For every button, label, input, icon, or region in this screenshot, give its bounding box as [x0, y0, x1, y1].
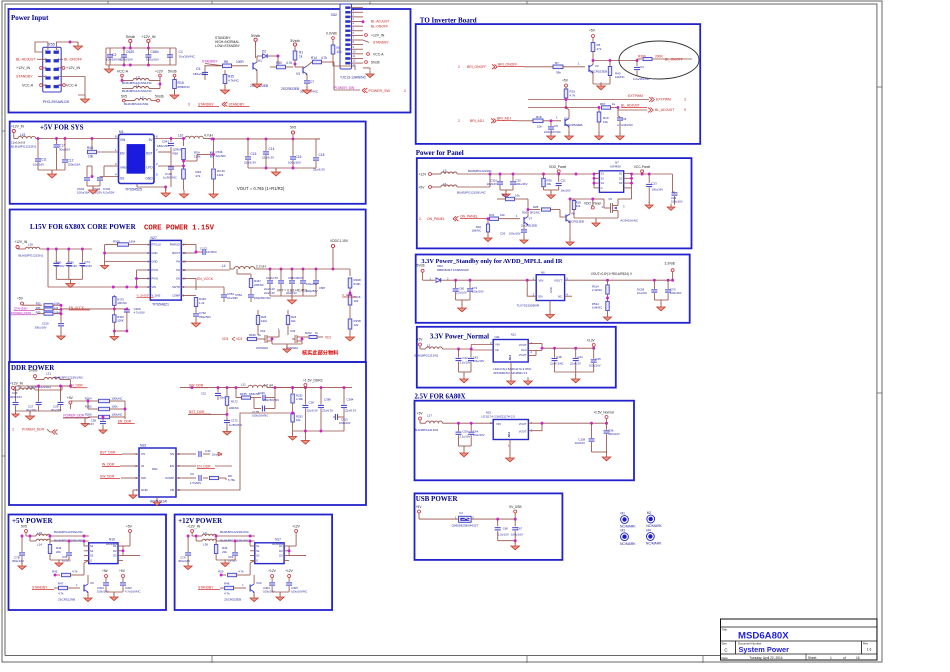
- transistor V10 p12: [224, 581, 262, 602]
- svg-text:R155: R155: [240, 392, 247, 396]
- ground V9 emitter: [84, 592, 92, 602]
- svg-text:2N7002A: 2N7002A: [256, 346, 268, 350]
- svg-text:91k: 91k: [291, 319, 296, 323]
- ground X55 top: [74, 42, 83, 50]
- wire usb bottom: [498, 539, 517, 542]
- svg-text:+12V: +12V: [285, 569, 294, 573]
- capacitor bank core output: [264, 269, 326, 296]
- mounting hole M4: [646, 528, 662, 545]
- svg-text:L5: L5: [443, 169, 447, 173]
- svg-text:AP1084D/NC AZ1084D-3.3: AP1084D/NC AZ1084D-3.3: [493, 371, 527, 375]
- svg-text:VD3: VD3: [222, 337, 228, 341]
- svg-text:10k: 10k: [603, 120, 608, 124]
- svg-text:核实此部分物料: 核实此部分物料: [302, 349, 339, 357]
- svg-text:5Vstb: 5Vstb: [251, 34, 260, 38]
- inductor L5 panel: [432, 169, 531, 175]
- resistor R49: [182, 166, 202, 190]
- svg-text:Date:: Date:: [722, 656, 729, 660]
- wire ddr out rail: [275, 386, 352, 389]
- svg-text:C22: C22: [671, 196, 677, 200]
- ground R49: [180, 190, 219, 198]
- svg-text:VCC-A: VCC-A: [22, 84, 34, 88]
- op-amp U regulator N32 AOZ1021: [133, 444, 182, 504]
- svg-text:100u/16V: 100u/16V: [146, 58, 159, 62]
- net EN_DDR mid: [118, 417, 135, 424]
- resistor R524: [592, 297, 609, 314]
- svg-text:VRT = 0.8(1+R1/R2): VRT = 0.8(1+R1/R2): [277, 289, 307, 293]
- svg-text:G: G: [90, 559, 92, 563]
- svg-text:R14: R14: [311, 56, 317, 60]
- svg-text:BST_DDR: BST_DDR: [100, 451, 116, 455]
- net STANDBY left: [16, 75, 45, 79]
- transistor V2 inverter: [589, 61, 607, 77]
- net V_SNS7: [137, 293, 154, 297]
- section title TO Inverter Board: [420, 17, 477, 25]
- ground core caps: [66, 280, 75, 288]
- ground stby in caps: [456, 300, 470, 312]
- svg-text:8.2v/50V: 8.2v/50V: [103, 191, 114, 195]
- svg-text:Power for Panel: Power for Panel: [416, 149, 464, 157]
- svg-text:BRI_ONOFF: BRI_ONOFF: [467, 65, 486, 69]
- svg-text:C480: C480: [55, 261, 62, 265]
- power +1.5V_DDR3: [303, 378, 323, 386]
- svg-text:R28: R28: [533, 205, 539, 209]
- svg-text:L15: L15: [37, 531, 42, 535]
- capacitor C5: [193, 65, 208, 80]
- svg-text:D2: D2: [279, 549, 283, 553]
- svg-text:SS: SS: [120, 177, 124, 181]
- svg-text:2SCR512EB: 2SCR512EB: [521, 224, 537, 228]
- svg-text:22u/6.3V: 22u/6.3V: [307, 409, 318, 413]
- svg-text:+12V_IN: +12V_IN: [11, 125, 25, 129]
- svg-text:TJC13-13AW/NC: TJC13-13AW/NC: [340, 76, 367, 80]
- capacitor C72: [79, 249, 92, 279]
- inductor L2 normal: [415, 344, 472, 358]
- offpage EXTPWM: [628, 94, 686, 102]
- svg-text:100u/16V/NC: 100u/16V/NC: [544, 130, 561, 134]
- svg-text:EN_DDR: EN_DDR: [197, 465, 211, 469]
- wire extpwm rail2: [528, 98, 649, 101]
- svg-text:GND: GND: [145, 177, 153, 181]
- svg-text:SW_DDR: SW_DDR: [100, 475, 115, 479]
- svg-text:PVIN: PVIN: [152, 277, 158, 281]
- power +12V panel: [419, 172, 432, 176]
- power +12V_IN mid: [141, 35, 155, 48]
- svg-text:TPS54821: TPS54821: [152, 303, 169, 307]
- svg-text:C305: C305: [291, 586, 298, 590]
- capacitor C544: [77, 166, 90, 195]
- power VDDC1.15V: [330, 239, 349, 269]
- section title +12V POWER: [178, 517, 223, 525]
- svg-text:6.8k/NC: 6.8k/NC: [592, 306, 602, 310]
- svg-text:MBR0520LT1/SS8200LW: MBR0520LT1/SS8200LW: [437, 268, 469, 272]
- svg-text:C: C: [724, 648, 727, 653]
- resistor R308: [348, 269, 361, 293]
- svg-text:100u/16A: 100u/16A: [77, 191, 89, 195]
- svg-text:STANDBY: STANDBY: [32, 586, 48, 590]
- ground IC pad: [153, 497, 161, 506]
- net POWER_12V core: [11, 311, 37, 315]
- svg-text:BL-ONOFF: BL-ONOFF: [371, 24, 388, 28]
- svg-text:1.5n/50V: 1.5n/50V: [190, 481, 201, 485]
- svg-text:R40: R40: [87, 146, 93, 150]
- svg-text:V7: V7: [529, 217, 533, 221]
- resistor R5 inverter: [591, 43, 602, 61]
- svg-text:100K: 100K: [117, 319, 124, 323]
- section box USB POWER: [415, 493, 563, 560]
- net EN_DDR to IC: [182, 465, 232, 470]
- svg-text:C7N: C7N: [670, 288, 676, 292]
- svg-text:39k: 39k: [556, 71, 561, 75]
- wire V9 collector: [54, 574, 88, 584]
- svg-text:5V5: 5V5: [121, 94, 127, 98]
- net BL-ONOFF label: [59, 58, 83, 62]
- svg-text:D2: D2: [262, 50, 266, 54]
- svg-text:30u/16V: 30u/16V: [55, 264, 65, 268]
- svg-text:4.7u/16V/NC: 4.7u/16V/NC: [617, 123, 633, 127]
- net IN_DDR to IC: [102, 463, 133, 468]
- wire FB ddr: [182, 412, 294, 490]
- svg-text:100k: 100k: [112, 405, 119, 409]
- resistor R43 inverter: [608, 61, 624, 83]
- svg-text:Q06558258/04632T: Q06558258/04632T: [452, 524, 479, 528]
- svg-text:2.2u/10V: 2.2u/10V: [498, 532, 509, 536]
- capacitor C138 2v5: [575, 423, 595, 452]
- svg-text:C429: C429: [258, 391, 265, 395]
- ground IC N32 pin4: [129, 490, 137, 499]
- capacitor C43 normal: [468, 350, 485, 372]
- wire BOOT pin: [186, 251, 197, 254]
- svg-text:3.3V Power_Normal: 3.3V Power_Normal: [430, 334, 489, 341]
- power +5V inverter upper: [589, 29, 596, 43]
- capacitor C780: [66, 249, 77, 279]
- section title 2.5V: [415, 394, 466, 401]
- svg-text:BL_ADJUST: BL_ADJUST: [655, 108, 674, 112]
- svg-text:LOW=STANDBY: LOW=STANDBY: [215, 44, 241, 48]
- svg-text:BRI_ADJ: BRI_ADJ: [470, 119, 484, 123]
- svg-text:10n/50V: 10n/50V: [206, 250, 217, 254]
- svg-text:2.2u/10V: 2.2u/10V: [460, 435, 471, 439]
- ground sys caps: [48, 170, 57, 178]
- power 5V5 L2: [121, 94, 127, 102]
- resistor R205 ddr: [85, 400, 125, 411]
- power +12V_IN p12: [187, 525, 201, 537]
- wire sys caps bottom: [38, 169, 65, 171]
- resistor R116: [348, 293, 361, 310]
- ground V6 R129 shared: [574, 218, 618, 227]
- svg-text:2.2 uH: 2.2 uH: [256, 265, 266, 269]
- net BST_DDR label: [188, 410, 211, 415]
- ground R302 C369: [110, 333, 119, 341]
- section title DDR POWER: [11, 364, 55, 372]
- wire V8 base: [560, 210, 566, 218]
- svg-text:NC/MARK: NC/MARK: [646, 542, 662, 546]
- resistor R158: [348, 310, 361, 334]
- wire panel D bus: [630, 173, 672, 188]
- svg-text:POWER_DDR: POWER_DDR: [11, 311, 32, 315]
- power 3.3Vstb: [665, 262, 676, 281]
- resistor R8: [205, 60, 248, 68]
- svg-text:BRI_ONOFF: BRI_ONOFF: [498, 63, 517, 67]
- svg-text:+12V_IN: +12V_IN: [10, 382, 24, 386]
- ground IC: [137, 184, 170, 198]
- resistor R447: [237, 269, 264, 292]
- svg-text:VDD_Panel: VDD_Panel: [549, 165, 566, 169]
- svg-text:22R/NC: 22R/NC: [254, 283, 264, 287]
- svg-text:N32: N32: [140, 444, 146, 448]
- capacitor C9 inverter: [544, 119, 561, 134]
- ground C23 panel: [645, 201, 653, 208]
- svg-text:EN_VCCK: EN_VCCK: [197, 277, 214, 281]
- svg-text:V8: V8: [571, 212, 575, 216]
- svg-text:VOUT: VOUT: [554, 279, 562, 283]
- svg-text:5V_USB: 5V_USB: [509, 505, 521, 509]
- power 5Vstb ddr: [29, 369, 38, 380]
- svg-text:D3: D3: [279, 554, 283, 558]
- svg-text:100u/16V: 100u/16V: [589, 364, 601, 368]
- power +12V ferrite: [155, 70, 164, 89]
- svg-text:S3: S3: [601, 181, 605, 185]
- svg-text:47k: 47k: [597, 47, 602, 51]
- ground p5 out caps: [106, 592, 123, 601]
- note VRT formula: [277, 289, 307, 293]
- svg-text:22u/6.3V: 22u/6.3V: [264, 287, 275, 291]
- svg-text:BL-ADJUST: BL-ADJUST: [371, 20, 389, 24]
- section box +5V POWER: [9, 515, 167, 611]
- svg-text:VD3: VD3: [236, 337, 242, 341]
- svg-text:VCC-A: VCC-A: [66, 84, 78, 88]
- svg-text:GND: GND: [152, 260, 158, 264]
- svg-text:C2: C2: [112, 53, 116, 57]
- svg-text:C74: C74: [472, 286, 478, 290]
- svg-text:R58: R58: [173, 152, 179, 156]
- svg-text:STANDBY: STANDBY: [198, 102, 215, 106]
- wire V8 collector: [569, 198, 574, 214]
- resistor R206 ddr: [85, 401, 127, 419]
- svg-text:4: 4: [369, 1, 371, 5]
- capacitor C61 p12: [228, 540, 238, 563]
- svg-text:R30: R30: [276, 61, 282, 65]
- resistor R46 p12: [214, 535, 227, 560]
- svg-text:1u/50V/NC: 1u/50V/NC: [163, 176, 177, 180]
- svg-text:R48: R48: [224, 582, 230, 586]
- title block: [721, 619, 878, 660]
- capacitor C1: [167, 48, 196, 65]
- resistor R155 ddr: [236, 388, 261, 400]
- wire NC pin stby: [565, 295, 572, 297]
- transistor N17 AO4459 p12: [250, 538, 289, 564]
- svg-text:C11: C11: [41, 158, 47, 162]
- svg-text:2.2 uH: 2.2 uH: [264, 384, 274, 388]
- svg-text:GND: GND: [141, 488, 149, 492]
- inductor L27 2v5: [415, 414, 494, 433]
- wire p12 ic input: [249, 535, 255, 546]
- svg-text:+12V_IN: +12V_IN: [14, 240, 28, 244]
- section box +12V POWER: [175, 515, 333, 611]
- section title Power Input: [11, 14, 49, 22]
- power 5Vstb mid: [126, 35, 135, 48]
- wire core input rail: [40, 248, 151, 289]
- svg-text:+12V: +12V: [292, 525, 301, 529]
- svg-text:R172: R172: [231, 399, 238, 403]
- resistor R646: [246, 333, 262, 341]
- svg-text:BLM18PG121SN1: BLM18PG121SN1: [415, 354, 439, 358]
- svg-text:N11: N11: [495, 335, 500, 339]
- net POWER_SW label: [334, 86, 355, 90]
- capacitor C96 stby: [665, 280, 682, 300]
- svg-text:M3: M3: [621, 529, 626, 533]
- svg-text:F2: F2: [459, 511, 463, 515]
- svg-text:C43: C43: [473, 356, 479, 360]
- wire core caps bottom: [56, 279, 82, 281]
- junction mid rails: [123, 47, 150, 67]
- svg-text:4.7k/NC: 4.7k/NC: [228, 79, 240, 83]
- svg-text:100u/16V: 100u/16V: [509, 232, 521, 236]
- svg-text:C684: C684: [151, 50, 159, 54]
- junction V1 R30: [277, 55, 297, 66]
- svg-text:5.76k: 5.76k: [228, 478, 235, 482]
- wire usb caps: [496, 518, 516, 527]
- capacitor C44 normal: [570, 348, 583, 372]
- svg-text:22u/6.3V: 22u/6.3V: [264, 291, 275, 295]
- svg-text:2: 2: [419, 217, 421, 221]
- svg-text:2SCR523EB: 2SCR523EB: [566, 123, 582, 127]
- svg-text:BLM18PG121SN1: BLM18PG121SN1: [415, 428, 439, 432]
- resistor R36 panel: [542, 174, 552, 190]
- svg-text:POWER_DDR: POWER_DDR: [22, 428, 45, 432]
- wire p5 out caps rail: [123, 555, 140, 557]
- svg-text:AO4409: AO4409: [106, 542, 117, 546]
- capacitor C40 ddr: [182, 449, 223, 457]
- net STANDBY p5: [32, 586, 58, 591]
- capacitor C541: [157, 137, 184, 155]
- ground mosfets: [283, 345, 291, 352]
- svg-text:+12V_IN: +12V_IN: [141, 35, 155, 39]
- svg-text:180u/25V: 180u/25V: [157, 144, 169, 148]
- svg-text:C15: C15: [251, 152, 257, 156]
- svg-text:VOUT: VOUT: [519, 343, 527, 347]
- ground C172 ddr: [223, 428, 231, 435]
- svg-text:V9: V9: [90, 581, 94, 585]
- power 5V_USB: [509, 505, 521, 519]
- resistor R129 panel: [572, 198, 594, 218]
- svg-text:10k: 10k: [576, 204, 581, 208]
- svg-text:EN: EN: [170, 464, 174, 468]
- svg-text:1u/50V: 1u/50V: [228, 559, 237, 563]
- ground C544 C542: [87, 186, 100, 194]
- svg-text:VDDC1.15V: VDDC1.15V: [330, 239, 349, 243]
- wire ddr left rail: [16, 385, 72, 390]
- resistor R19 inverter: [597, 106, 609, 134]
- svg-text:R206: R206: [85, 413, 92, 417]
- ground X52: [363, 68, 374, 78]
- svg-text:C620: C620: [126, 50, 134, 54]
- svg-text:C96: C96: [608, 429, 614, 433]
- capacitor C570 stby: [637, 280, 657, 300]
- svg-text:C23: C23: [652, 182, 658, 186]
- capacitor C66 usb: [495, 527, 509, 541]
- power +2.5V_Normal: [593, 411, 614, 424]
- svg-text:C6: C6: [190, 472, 194, 476]
- wire ddr caps bottom: [16, 411, 61, 414]
- svg-text:2: 2: [458, 119, 460, 123]
- svg-text:POWER_DDR: POWER_DDR: [63, 413, 84, 417]
- ground ddr caps: [12, 411, 35, 420]
- capacitor C305 p12: [286, 580, 307, 594]
- svg-text:VIN: VIN: [539, 279, 544, 283]
- svg-text:9: 9: [684, 108, 686, 112]
- svg-text:680R/NC: 680R/NC: [178, 85, 191, 89]
- svg-text:30u/16V: 30u/16V: [67, 264, 77, 268]
- svg-text:+12V: +12V: [419, 172, 428, 176]
- wire bst ddr: [211, 413, 228, 416]
- svg-text:BLM18PG121SN1: BLM18PG121SN1: [11, 145, 37, 149]
- svg-text:+5V: +5V: [417, 338, 424, 342]
- svg-text:VREG5: VREG5: [120, 166, 131, 170]
- svg-text:R8: R8: [224, 60, 228, 64]
- svg-text:IN_DDR: IN_DDR: [102, 463, 115, 467]
- power +5V normal: [417, 338, 426, 350]
- resistor R40: [87, 139, 119, 159]
- svg-text:Rev: Rev: [863, 642, 869, 646]
- svg-text:R29: R29: [218, 570, 224, 574]
- capacitor C67 usb: [511, 527, 523, 541]
- svg-text:C16: C16: [296, 155, 302, 159]
- svg-text:C42: C42: [463, 356, 469, 360]
- svg-text:C1: C1: [179, 50, 183, 54]
- svg-text:S2: S2: [601, 176, 605, 180]
- power 5V5 p5: [21, 525, 28, 537]
- resistor R15: [173, 77, 191, 93]
- ground bank: [272, 168, 281, 176]
- svg-text:2.49k: 2.49k: [296, 397, 303, 401]
- capacitor C27 ddr: [26, 385, 42, 412]
- power +5V3 p5: [119, 569, 126, 580]
- svg-text:ADJ: ADJ: [507, 431, 511, 437]
- svg-text:5: 5: [107, 1, 109, 5]
- svg-text:L9: L9: [203, 531, 207, 535]
- svg-text:G: G: [601, 186, 603, 190]
- svg-text:5Vstb: 5Vstb: [29, 369, 38, 373]
- svg-text:TLV70233DBVR: TLV70233DBVR: [517, 303, 540, 307]
- wire core gnd pins: [103, 245, 150, 264]
- svg-text:+5V: +5V: [589, 29, 596, 33]
- svg-text:RT/CLK: RT/CLK: [152, 243, 162, 247]
- svg-text:Vout: Vout: [521, 348, 527, 352]
- svg-text:2SCR523EB: 2SCR523EB: [224, 598, 241, 602]
- svg-text:EN: EN: [120, 152, 125, 156]
- svg-text:22p/50V: 22p/50V: [216, 154, 227, 158]
- svg-text:C64: C64: [473, 430, 479, 434]
- svg-text:5Vstb: 5Vstb: [168, 70, 177, 74]
- capacitor C480: [53, 249, 64, 279]
- net +12V_IN X52: [365, 34, 385, 38]
- svg-text:10k: 10k: [88, 155, 94, 159]
- svg-text:VIN: VIN: [496, 422, 501, 426]
- transistor V1: [250, 59, 268, 88]
- wire FB node: [158, 165, 185, 170]
- resistor R67 inverter: [600, 102, 618, 109]
- section box 2.5V: [415, 401, 635, 481]
- svg-text:C60: C60: [459, 287, 465, 291]
- svg-text:D3: D3: [619, 181, 623, 185]
- svg-text:100u/16V: 100u/16V: [288, 161, 301, 165]
- svg-text:4.7k: 4.7k: [72, 570, 78, 574]
- wire R37 to V7: [527, 199, 530, 211]
- svg-text:+12V: +12V: [155, 70, 164, 74]
- svg-text:VIN: VIN: [152, 285, 157, 289]
- svg-text:4.7u/16V/NC: 4.7u/16V/NC: [125, 590, 140, 594]
